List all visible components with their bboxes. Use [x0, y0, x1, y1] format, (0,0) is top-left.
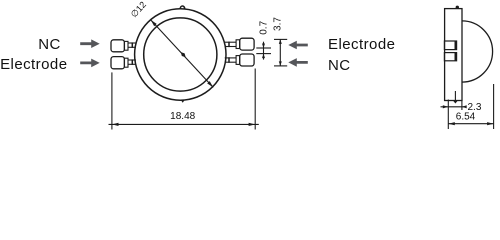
dimension 3.7 (right of lugs) [274, 39, 287, 66]
svg-text:18.48: 18.48 [170, 111, 195, 122]
bottom nub on disc rim [181, 100, 185, 103]
top-right solder lug [225, 38, 254, 50]
arrowhead bottom-right of diameter line [207, 81, 213, 87]
diameter dimension line [151, 20, 214, 88]
extension line left for 18.48 [111, 72, 113, 129]
side view upper lug [444, 41, 456, 50]
extension line right for 18.48 [254, 69, 256, 130]
arrow to Electrode label (right, pointing left) [288, 41, 308, 50]
dimension 6.54 (overall depth) [448, 84, 493, 129]
svg-text:6.54: 6.54 [456, 111, 476, 122]
svg-text:Electrode: Electrode [0, 56, 67, 73]
arrow to NC label (right, pointing left) [288, 58, 308, 67]
arrow from NC label (left, pointing right) [80, 39, 100, 48]
side view lower lug [444, 53, 456, 61]
bottom-left solder lug [111, 57, 136, 69]
svg-text:NC: NC [328, 57, 350, 74]
side view bottom center mark [453, 91, 458, 104]
side view dome [462, 21, 493, 82]
svg-text:3.7: 3.7 [272, 17, 283, 31]
top-left solder lug [111, 40, 136, 52]
svg-text:NC: NC [38, 36, 60, 53]
side view body rectangle [445, 9, 462, 101]
outer circle (piezo disc front view) [135, 9, 226, 100]
center tick of diameter line [181, 52, 186, 57]
bottom-right solder lug [225, 54, 254, 66]
arrow from Electrode label (left, pointing right) [80, 59, 100, 68]
dimension line 18.48 [109, 123, 259, 126]
svg-text:Electrode: Electrode [328, 36, 395, 53]
inner circle (ceramic element) [144, 18, 217, 91]
dimension 0.7 (right of lugs) [256, 42, 271, 60]
arrowhead top-left of diameter line [151, 20, 157, 26]
side view top nub [456, 6, 459, 9]
svg-text:0.7: 0.7 [258, 20, 269, 34]
top nub on disc rim [180, 6, 185, 9]
svg-text:∅12: ∅12 [129, 0, 148, 19]
dimension 2.3 (disc thickness) [441, 100, 467, 130]
